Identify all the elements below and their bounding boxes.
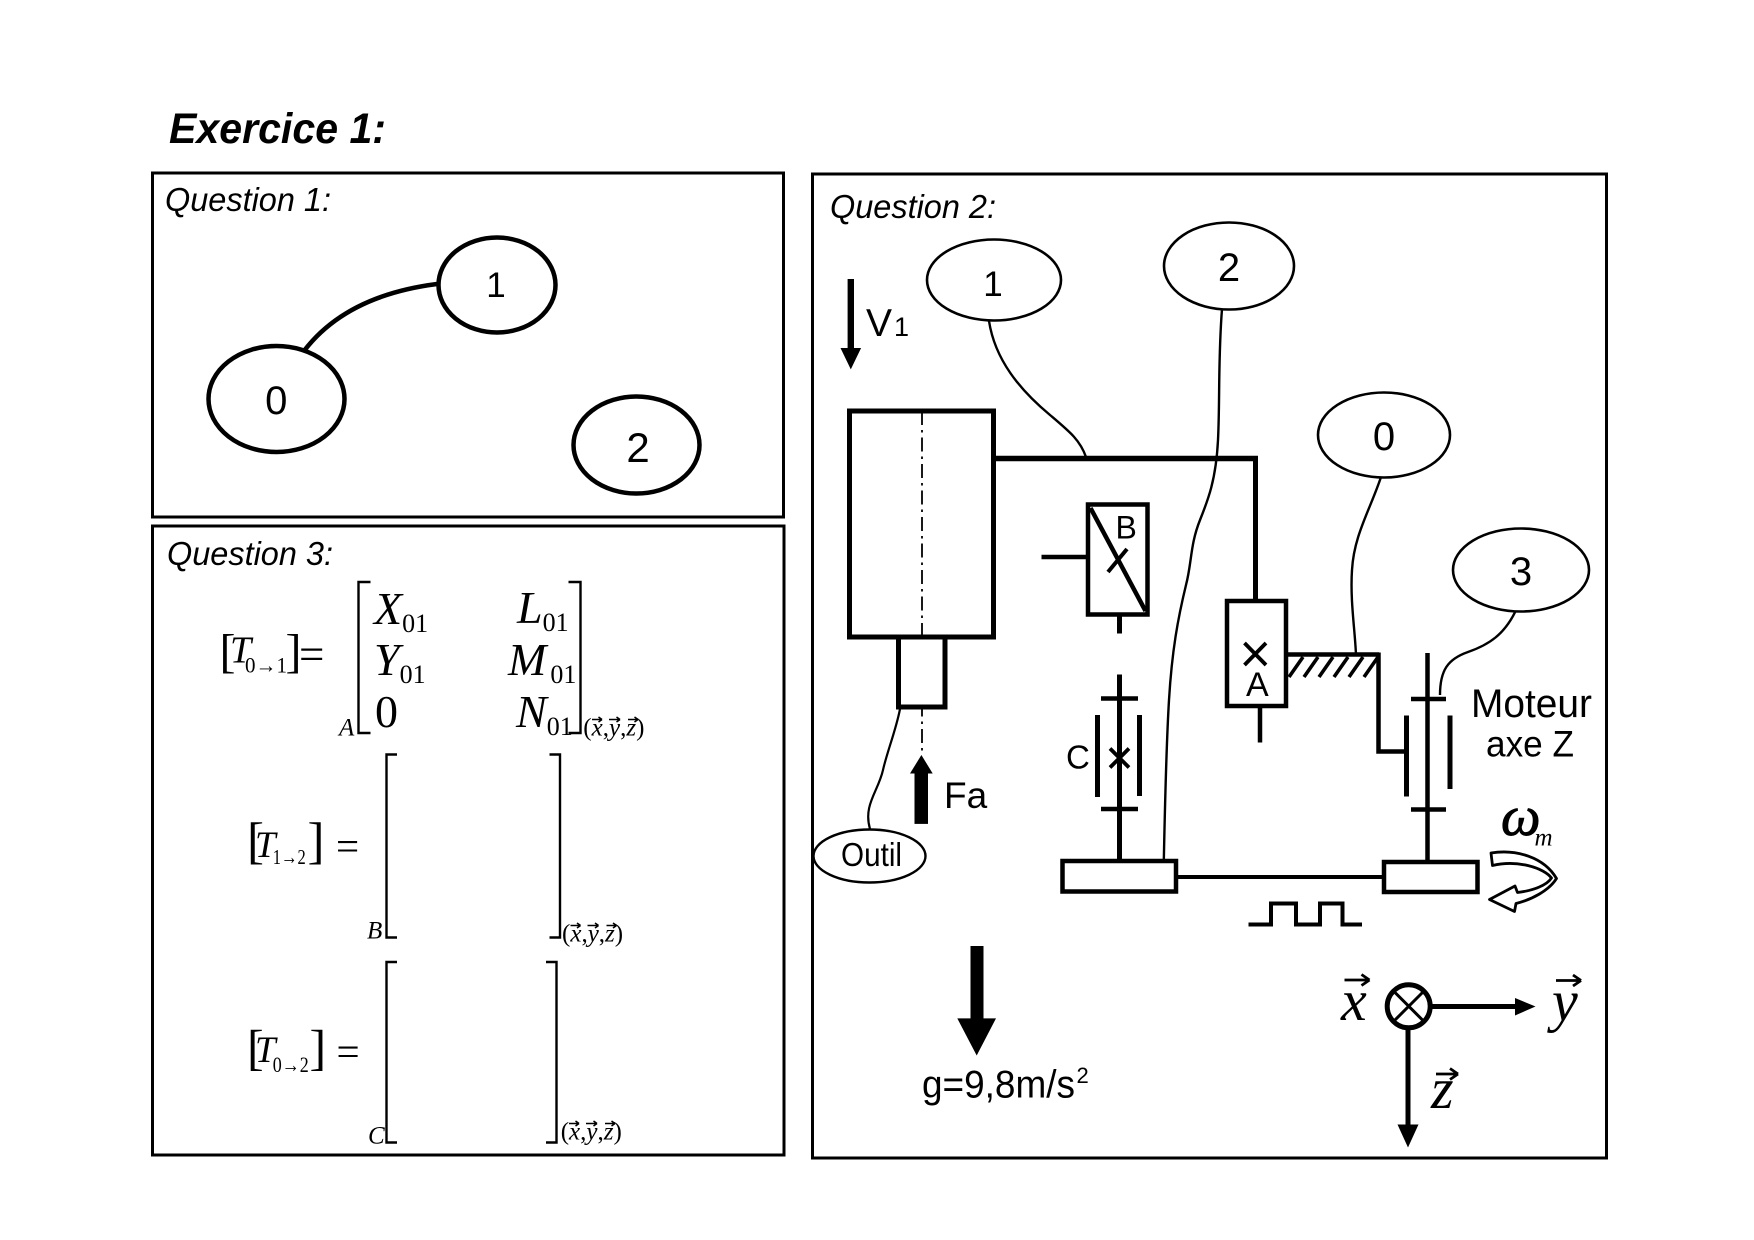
basis label xyz B: [562, 921, 623, 948]
motor bottom tick: [1411, 807, 1446, 812]
balloon 1: [927, 240, 1061, 321]
svg-text:=: =: [337, 1029, 360, 1075]
matrix A bracket right: [569, 582, 581, 733]
rotation arrow: [1490, 852, 1557, 911]
svg-text:Outil: Outil: [841, 836, 902, 873]
screw C top tick: [1101, 696, 1138, 701]
svg-text:C: C: [368, 1123, 385, 1150]
label y vector: [1547, 969, 1581, 1034]
axis z arrow: [1398, 1028, 1419, 1148]
svg-text:A: A: [337, 715, 355, 742]
bedplate right: [1384, 862, 1478, 892]
basis label xyz A: [583, 715, 644, 742]
balloon 3: [1453, 529, 1589, 612]
axis x symbol circle cross: [1387, 985, 1430, 1028]
svg-text:Exercice 1:: Exercice 1:: [169, 106, 386, 153]
svg-text:(x,y,z): (x,y,z): [583, 715, 644, 742]
svg-text:V: V: [866, 302, 892, 345]
svg-text:1: 1: [486, 266, 505, 305]
svg-text:Moteur: Moteur: [1471, 682, 1592, 726]
joint A bottom stub: [1258, 706, 1263, 743]
joint B box: [1088, 505, 1148, 615]
node 1: [439, 238, 556, 333]
arrow Fa: [910, 755, 933, 824]
svg-text:A: A: [1246, 666, 1269, 704]
svg-text:2: 2: [626, 424, 649, 471]
leader of balloon 3: [1440, 608, 1517, 695]
screw C right bar: [1137, 715, 1142, 796]
motor top tick: [1411, 697, 1446, 702]
svg-text:2: 2: [1077, 1063, 1089, 1088]
ground hatch line: [1286, 652, 1379, 657]
question 2 frame: [813, 174, 1607, 1158]
matrix A bracket left: [359, 582, 371, 733]
screw C bottom tick: [1101, 807, 1138, 812]
link line between bedplates: [1176, 875, 1384, 879]
svg-text:1: 1: [983, 265, 1002, 304]
label T 0-1: [220, 625, 325, 680]
node 2: [574, 397, 700, 494]
svg-text:2: 2: [1218, 246, 1240, 290]
arrow V1: [841, 279, 862, 369]
ground drop line: [1379, 653, 1407, 752]
square wave: [1249, 904, 1363, 925]
svg-text:B: B: [1116, 510, 1137, 546]
svg-text:0: 0: [265, 379, 287, 423]
svg-text:=: =: [336, 823, 359, 869]
svg-text:0→1: 0→1: [245, 653, 287, 678]
balloon 2: [1164, 223, 1294, 310]
ground hatch strokes: [1289, 657, 1378, 677]
screw C left bar: [1095, 715, 1100, 797]
svg-text:z: z: [1430, 1056, 1454, 1121]
joint B left stub: [1042, 555, 1089, 560]
leader of balloon 1: [989, 321, 1086, 457]
svg-text:g=9,8m/s: g=9,8m/s: [922, 1064, 1075, 1107]
svg-text:3: 3: [1510, 550, 1532, 594]
leader of Outil: [868, 709, 900, 829]
svg-text:]: ]: [308, 814, 325, 870]
svg-text:axe Z: axe Z: [1486, 723, 1574, 765]
svg-text:m: m: [1535, 825, 1553, 852]
quill: [899, 637, 946, 707]
bedplate left: [1063, 861, 1177, 892]
matrix B bracket left: [387, 755, 398, 938]
wire top horizontal: [993, 456, 1258, 462]
svg-text:=: =: [299, 630, 324, 680]
svg-text:0→2: 0→2: [273, 1052, 309, 1077]
matrix C bracket left: [387, 962, 398, 1143]
svg-text:Question 2:: Question 2:: [830, 188, 996, 225]
svg-text:0: 0: [1373, 415, 1395, 459]
matrix B bracket right: [550, 755, 561, 938]
svg-text:1: 1: [894, 312, 909, 342]
label T 0-2: [247, 1020, 360, 1078]
svg-text:C: C: [1066, 739, 1090, 776]
leader of balloon 2: [1164, 309, 1222, 861]
joint B bottom stub: [1117, 615, 1122, 634]
arrow g: [957, 946, 996, 1056]
body 1 spindle head: [850, 411, 994, 637]
wire edge 0-1: [301, 284, 437, 355]
motor right bar: [1448, 716, 1453, 790]
motor shaft: [1425, 653, 1430, 862]
screw C cross: [1110, 749, 1129, 768]
label T 1-2: [247, 814, 359, 870]
label x vector: [1340, 968, 1370, 1033]
balloon 0: [1318, 393, 1450, 478]
svg-text:0: 0: [375, 686, 398, 737]
svg-text:1→2: 1→2: [273, 845, 306, 869]
svg-text:Question 3:: Question 3:: [167, 535, 333, 572]
svg-text:x: x: [1340, 968, 1367, 1033]
svg-text:B: B: [367, 918, 382, 945]
svg-text:y: y: [1547, 969, 1578, 1034]
centerline: [921, 411, 923, 751]
balloon Outil: [814, 830, 926, 883]
screw C shaft: [1117, 675, 1122, 862]
question 3 frame: [153, 526, 785, 1155]
axis y arrow: [1430, 998, 1536, 1016]
svg-text:Fa: Fa: [944, 775, 988, 816]
node 0: [209, 346, 345, 452]
leader of balloon 0: [1352, 477, 1381, 655]
matrix C bracket right: [546, 962, 557, 1143]
svg-text:]: ]: [310, 1020, 327, 1076]
motor left bar: [1404, 716, 1409, 797]
wire right vertical to A: [1253, 456, 1258, 602]
question 1 frame: [153, 173, 784, 517]
basis label xyz C: [561, 1119, 622, 1146]
svg-text:Question 1:: Question 1:: [165, 181, 331, 218]
joint A box: [1227, 601, 1286, 706]
label z vector: [1430, 1056, 1458, 1121]
